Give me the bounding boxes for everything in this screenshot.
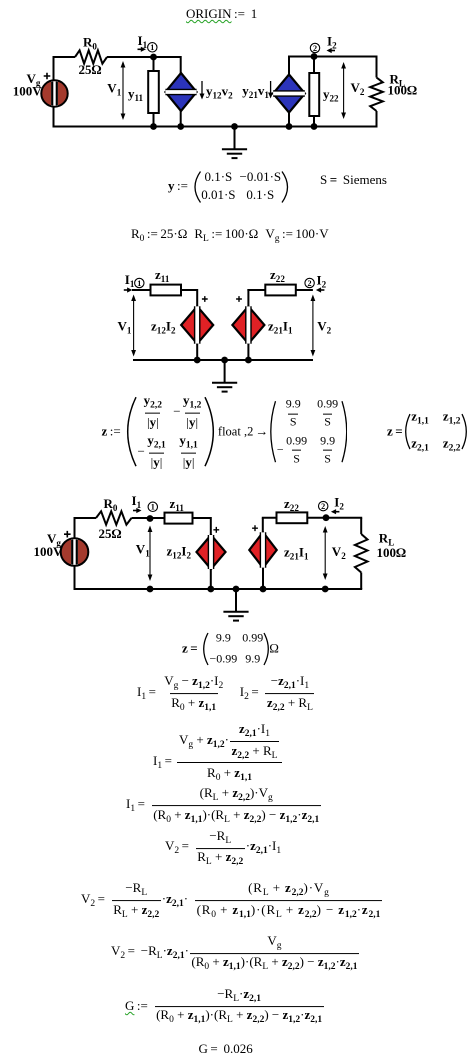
svg-text:100V: 100V [34, 544, 64, 559]
svg-text:V1: V1 [136, 542, 150, 559]
wire bottom [74, 588, 363, 590]
voltage source Vg [41, 80, 67, 106]
svg-text:R0: R0 [104, 496, 118, 513]
admittance y22 [309, 73, 319, 116]
svg-text:I2: I2 [334, 495, 344, 512]
node 1 [148, 502, 157, 512]
node 1 [148, 43, 157, 53]
wire top right [288, 57, 378, 75]
wire bottom [53, 126, 378, 128]
wire y11 stubs [153, 57, 155, 127]
dependent source y12v2 [165, 73, 196, 111]
dependent source z21I1 [232, 306, 264, 343]
svg-text:z11: z11 [170, 496, 185, 513]
voltage arrow V1 [131, 295, 136, 357]
voltage arrow V1 [148, 526, 153, 582]
wire top right [247, 289, 313, 291]
wire bottom [133, 359, 313, 361]
svg-text:V2: V2 [332, 544, 346, 561]
polarity plus Vg [64, 531, 71, 538]
svg-text:2: 2 [321, 502, 325, 511]
node 2 [305, 278, 314, 288]
wire diamond1 bottom stem [180, 111, 182, 127]
svg-text:100Ω: 100Ω [377, 545, 407, 560]
voltage arrow V2 [323, 526, 328, 580]
impedance z11 [165, 513, 193, 524]
ground circuit1 [222, 127, 247, 159]
svg-text:I1: I1 [132, 493, 142, 510]
dependent source z21I1 [249, 532, 276, 568]
junction dots bottom [150, 123, 157, 130]
wire diamond2 bottom stem [288, 113, 290, 127]
svg-text:25Ω: 25Ω [99, 526, 122, 541]
resistor R0 [96, 511, 132, 524]
node 2 [319, 501, 328, 511]
wire top left [54, 56, 182, 73]
svg-text:z22: z22 [284, 496, 299, 513]
junction dots bottom [147, 586, 154, 593]
dependent source z12I2 [181, 306, 213, 343]
polarity plus z21I1 [236, 296, 242, 302]
equations [186, 7, 257, 20]
node 2 [310, 43, 319, 53]
ground circuit2 [212, 360, 237, 392]
impedance z11 [151, 285, 182, 296]
wire right [360, 518, 362, 589]
impedance z22 [277, 512, 308, 523]
svg-text:1: 1 [151, 503, 155, 512]
polarity plus z12I2 [202, 296, 208, 302]
voltage source Vg [61, 538, 89, 566]
resistor RL [370, 78, 383, 112]
dependent source z12I2 [197, 535, 226, 569]
wire top left [132, 289, 198, 307]
wire left [53, 56, 55, 127]
wire right [376, 57, 378, 127]
arrow y21v1 [268, 81, 273, 99]
svg-text:z21I1: z21I1 [284, 545, 309, 562]
polarity plus z21I1 [252, 525, 258, 531]
resistor R0 [75, 50, 107, 63]
ground circuit3 [223, 589, 248, 621]
wire left [74, 517, 76, 589]
dependent source y21v1 [273, 75, 305, 113]
polarity plus z12I2 [213, 527, 219, 533]
resistor RL [355, 534, 368, 573]
impedance z22 [265, 285, 296, 296]
node 1 [135, 278, 144, 288]
voltage arrow V2 [311, 295, 316, 357]
wire top left [75, 517, 212, 535]
wire top right [262, 517, 362, 519]
svg-text:z12I2: z12I2 [167, 544, 192, 561]
wire y22 stubs [313, 57, 315, 127]
admittance y11 [148, 71, 159, 113]
polarity plus Vg [44, 73, 51, 80]
arrow y12v2 [200, 81, 205, 100]
junction dots bottom [194, 357, 201, 364]
